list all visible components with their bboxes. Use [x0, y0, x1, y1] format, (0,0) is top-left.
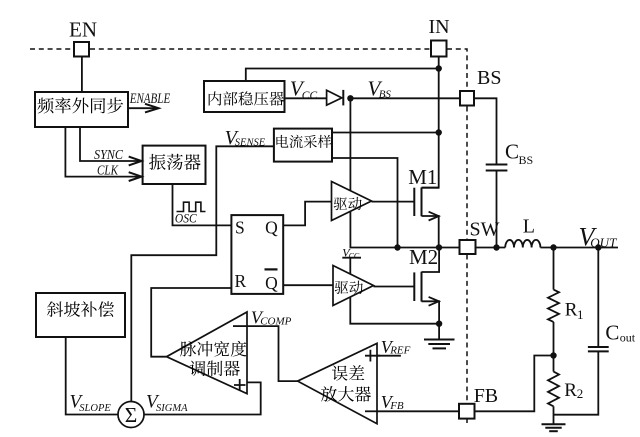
wire: Q output to high-side driver [283, 202, 331, 226]
pad: SW pin [460, 240, 476, 254]
wire: SW rail pad to VOUT line end [476, 247, 619, 249]
svg-text:out: out [620, 330, 636, 344]
resistor R1 upper divider [548, 290, 559, 322]
svg-text:BS: BS [379, 89, 392, 101]
oscillator OSC clock waveform symbol [177, 202, 206, 211]
wire: VBS rail down through high-side driver to SW rail [350, 98, 459, 247]
svg-text:EN: EN [69, 18, 97, 42]
svg-text:1: 1 [577, 307, 584, 322]
svg-text:M2: M2 [409, 245, 438, 269]
wire: VSENSE current-sense input down to sigma [131, 146, 274, 401]
svg-text:2: 2 [577, 386, 584, 401]
wire: regulator top to IN node [246, 69, 439, 82]
svg-text:BS: BS [519, 153, 534, 167]
wire: EN pad to sync block [81, 57, 83, 93]
wire: VBS net diode to BS pad [350, 97, 460, 99]
arrow: ENABLE output arrow [128, 104, 159, 113]
node junction dot 1 at (438.7,68.5) [436, 65, 442, 71]
wire: oscillator OSC output to S input [173, 184, 232, 225]
transistor M1 high-side NMOS [372, 187, 439, 247]
svg-text:R: R [564, 380, 577, 401]
wire: BS pad to CBS top [474, 98, 497, 164]
capacitor Cout output [588, 347, 609, 351]
node junction dot 8 at (598.3,247.5) [595, 244, 601, 250]
op-amp: low-side gate driver 驱动 (lower) [333, 266, 374, 306]
wire: VCC tick to low-side driver to ground rail [342, 258, 439, 324]
block: frequency external sync box 频率外同步 [35, 92, 128, 127]
svg-text:L: L [523, 216, 535, 238]
svg-text:CC: CC [349, 252, 360, 261]
op-amp: error amplifier 误差放大器 [298, 343, 381, 423]
svg-text:ENABLE: ENABLE [129, 91, 170, 107]
svg-text:Σ: Σ [125, 403, 138, 427]
op-amp: PWM comparator 脉冲宽度调制器 [167, 312, 248, 394]
pad: FB pin [459, 404, 475, 419]
wire: CBS bottom to SW rail [496, 171, 498, 248]
wire: PWM output to R input [151, 288, 231, 357]
block: internal regulator box 内部稳压器 [204, 81, 285, 112]
wire: dashed boundary SW-to-FB segment [466, 255, 468, 404]
svg-text:OSC: OSC [175, 211, 197, 225]
capacitor CBS bootstrap [486, 165, 508, 171]
inductor L output [505, 240, 540, 248]
svg-text:OUT: OUT [590, 235, 617, 250]
wire: Qbar output to low-side driver [283, 284, 333, 286]
node junction dot 4 at (397.5,247.5) [394, 244, 400, 250]
arrow: CLK signal into oscillator [65, 127, 141, 181]
wire: VSLOPE slope comp to sigma [66, 337, 118, 415]
wire: dashed chip boundary IN-to-corner segment [447, 49, 467, 90]
wire: VOUT to R1 top [553, 248, 555, 290]
svg-text:M1: M1 [408, 165, 437, 189]
svg-text:CLK: CLK [97, 162, 119, 177]
pad: EN pin [74, 42, 89, 57]
node junction dot 10 at (553.5,355.5) [550, 352, 556, 358]
node junction dot 7 at (553.5,247.5) [550, 244, 556, 250]
arrow: SYNC signal into oscillator [80, 127, 142, 165]
pad: BS pin [460, 91, 474, 106]
wire: VSIGMA sigma output to PWM non-inverting input [144, 382, 261, 414]
wire: dashed chip boundary top-left segment [30, 48, 73, 50]
wire: current-sense to IN node [332, 132, 439, 134]
wire: current-sense to SW node [332, 158, 398, 248]
block: slope compensation box 斜坡补偿 [36, 293, 125, 337]
wire: dashed chip boundary EN-to-IN segment [90, 48, 430, 50]
block: current sampling box 电流采样 [274, 129, 332, 162]
svg-text:C: C [605, 320, 619, 344]
wire: R2 bottom to ground [553, 406, 555, 424]
svg-text:Q: Q [265, 273, 278, 293]
flip-flop: SR latch box [231, 215, 283, 294]
wire: VREF stub on error amp [365, 355, 401, 357]
diode D1 bootstrap [327, 90, 344, 106]
transistor M2 low-side NMOS [374, 248, 440, 340]
wire: FB pad to divider tap [475, 356, 554, 412]
svg-text:S: S [235, 218, 245, 238]
svg-text:COMP: COMP [260, 316, 291, 328]
svg-text:C: C [505, 139, 519, 163]
wire: VCOMP PWM inverting input from error amp output [233, 326, 298, 381]
node junction dot 6 at (496.5,247.5) [493, 244, 499, 250]
svg-text:CC: CC [302, 90, 318, 102]
svg-text:FB: FB [389, 400, 404, 412]
wire: dashed boundary BS-to-SW segment [466, 107, 468, 240]
svg-text:SIGMA: SIGMA [156, 403, 188, 414]
svg-text:Q: Q [265, 218, 278, 238]
svg-text:R: R [235, 271, 247, 291]
wire: dashed boundary below FB segment [466, 420, 468, 424]
resistor R2 lower divider [548, 372, 559, 407]
svg-text:SYNC: SYNC [94, 147, 124, 162]
svg-text:FB: FB [474, 385, 498, 407]
svg-text:R: R [565, 300, 578, 321]
node junction dot 3 at (438.7,132.5) [436, 129, 442, 135]
summing node sigma circle [118, 402, 144, 428]
svg-text:REF: REF [389, 345, 410, 357]
wire: IN pad down to M1 drain [422, 57, 439, 188]
pad: IN pin [431, 41, 447, 57]
svg-text:SW: SW [470, 219, 500, 241]
node junction dot 2 at (350.4,98.3) [347, 95, 353, 101]
ground: power ground below M2 [424, 340, 455, 349]
block: oscillator box 振荡器 [143, 146, 206, 184]
wire: R1 bottom to tap to R2 top [553, 322, 555, 372]
node junction dot 5 at (439,247.5) [436, 244, 442, 250]
wire: regulator output to diode anode [285, 97, 327, 99]
svg-text:SENSE: SENSE [235, 138, 266, 149]
op-amp: high-side gate driver 驱动 (upper) [332, 182, 372, 221]
svg-text:SLOPE: SLOPE [79, 403, 111, 414]
wire: Cout bottom to ground node [554, 351, 599, 414]
svg-text:IN: IN [428, 16, 449, 38]
svg-text:BS: BS [477, 67, 501, 89]
ground: signal ground below R2 [542, 424, 566, 431]
wire: VOUT down to Cout top [597, 248, 599, 348]
node junction dot 9 at (439.1,323.7) [436, 321, 442, 327]
wire: VFB error amp inverting input to FB pad [365, 410, 459, 412]
